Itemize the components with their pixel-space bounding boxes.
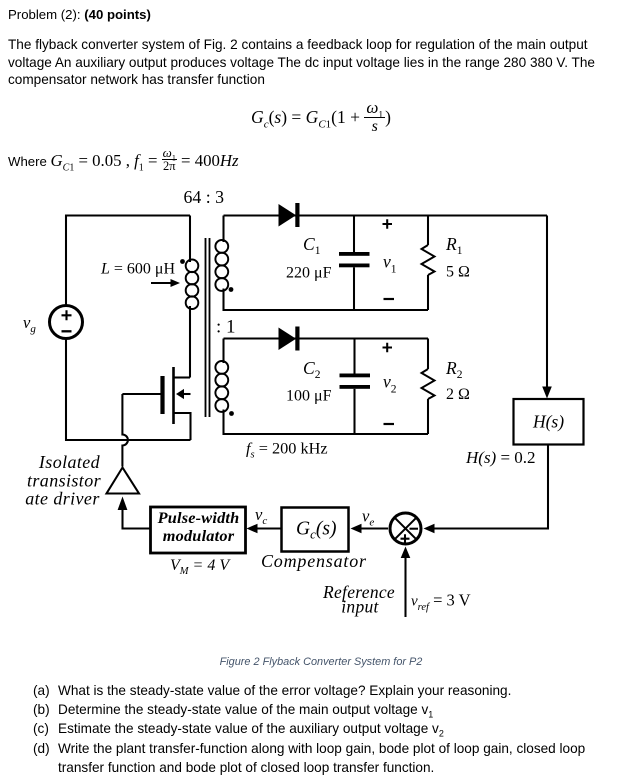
svg-text:C2: C2 xyxy=(303,358,321,381)
label Pulse-width modulator xyxy=(157,508,240,545)
svg-text:5 Ω: 5 Ω xyxy=(446,264,470,281)
compensator box Gc xyxy=(282,508,349,552)
diode D1 xyxy=(279,203,300,227)
source vg xyxy=(50,306,83,339)
svg-text:vc: vc xyxy=(255,505,267,527)
svg-text:R2: R2 xyxy=(445,358,463,381)
svg-text:64 : 3: 64 : 3 xyxy=(184,187,225,207)
wire: left bottom from source to bottom rail xyxy=(66,340,191,441)
drain lead xyxy=(175,376,191,378)
label plus at summer xyxy=(401,534,410,543)
node: primary polarity dot xyxy=(180,259,185,264)
capacitor C1 xyxy=(339,216,370,311)
svg-text:ate driver: ate driver xyxy=(25,489,100,509)
svg-text:Pulse-width: Pulse-width xyxy=(157,508,240,527)
PWM box xyxy=(151,507,246,553)
svg-text:v2: v2 xyxy=(383,372,397,396)
transistor body arrow xyxy=(176,389,184,399)
label minus at summer xyxy=(410,528,419,530)
wire: gate down to driver with hop xyxy=(122,394,128,467)
inductor secondary 1 xyxy=(215,216,428,311)
svg-text:transistor: transistor xyxy=(27,471,102,491)
svg-text:input: input xyxy=(341,597,379,617)
source plus minus xyxy=(62,310,72,331)
label minus sign v1 xyxy=(384,298,395,300)
op-amp gate driver triangle xyxy=(107,468,140,494)
inductor primary winding xyxy=(186,260,199,310)
inductor secondary 2 xyxy=(215,339,428,435)
H(s) box xyxy=(514,399,584,445)
figure caption xyxy=(11,656,620,668)
transistor Q1 (MOSFET) xyxy=(122,367,190,440)
label vg xyxy=(23,313,36,335)
gate bar xyxy=(160,376,164,414)
resistor R1 xyxy=(422,216,435,311)
svg-text:2 Ω: 2 Ω xyxy=(446,386,470,403)
label minus sign v2 xyxy=(384,423,395,425)
label Isolated transistor gate driver xyxy=(25,452,101,509)
label plus sign v1 xyxy=(383,219,393,228)
svg-text:fs = 200 kHz: fs = 200 kHz xyxy=(246,439,328,461)
circuit diagram xyxy=(0,185,620,645)
wire: PWM to driver with arrow xyxy=(118,497,150,529)
wire: summing junction to Gc arrow xyxy=(351,524,389,534)
arrow under L label xyxy=(151,279,180,287)
svg-text:C1: C1 xyxy=(303,234,321,257)
svg-text:ve: ve xyxy=(362,507,374,529)
svg-text:modulator: modulator xyxy=(163,526,235,545)
svg-text:100 μF: 100 μF xyxy=(286,388,332,405)
transformer core xyxy=(206,238,210,417)
intro paragraph xyxy=(8,36,608,89)
source lead xyxy=(175,413,191,440)
svg-text:H(s): H(s) xyxy=(532,412,564,432)
wire: feedback right vertical with arrow into H(s) xyxy=(542,216,552,399)
svg-text:220 μF: 220 μF xyxy=(286,265,332,282)
label plus sign v2 xyxy=(383,343,393,352)
diode D2 xyxy=(279,327,300,351)
wire: H(s) down and left to summer with arrow xyxy=(424,445,549,534)
wire: loop1 top rail xyxy=(224,214,548,216)
svg-text:L = 600 μH: L = 600 μH xyxy=(100,261,176,278)
resistor R2 xyxy=(422,339,435,435)
gate lead xyxy=(122,393,160,395)
capacitor C2 xyxy=(340,339,371,435)
body lead xyxy=(183,393,191,395)
wire: loop2 top rail xyxy=(224,337,429,339)
svg-text:Gc(s): Gc(s) xyxy=(296,519,336,542)
svg-text:Compensator: Compensator xyxy=(261,551,367,571)
svg-text:H(s) = 0.2: H(s) = 0.2 xyxy=(465,448,536,467)
wire: reference input arrow up into summer xyxy=(401,547,411,618)
svg-text:R1: R1 xyxy=(445,234,463,257)
svg-text:vref = 3 V: vref = 3 V xyxy=(411,591,471,614)
svg-text:Isolated: Isolated xyxy=(38,452,101,472)
heading xyxy=(8,7,151,22)
where line xyxy=(8,146,239,173)
svg-text:: 1: : 1 xyxy=(216,317,236,338)
wire: top left from source to primary xyxy=(66,216,190,305)
question list xyxy=(33,681,599,777)
wire: primary vertical xyxy=(189,216,191,378)
channel bar xyxy=(172,367,175,424)
wire: Gc to PWM arrow xyxy=(247,524,283,534)
equation Gc(s) xyxy=(11,99,620,136)
node: secondary2 polarity dot xyxy=(229,411,234,416)
svg-text:v1: v1 xyxy=(383,252,397,276)
svg-text:VM = 4 V: VM = 4 V xyxy=(170,557,231,577)
node: secondary1 polarity dot xyxy=(229,287,234,292)
summing junction xyxy=(390,513,421,544)
label Reference input xyxy=(322,582,395,617)
svg-text:vg: vg xyxy=(23,313,36,335)
